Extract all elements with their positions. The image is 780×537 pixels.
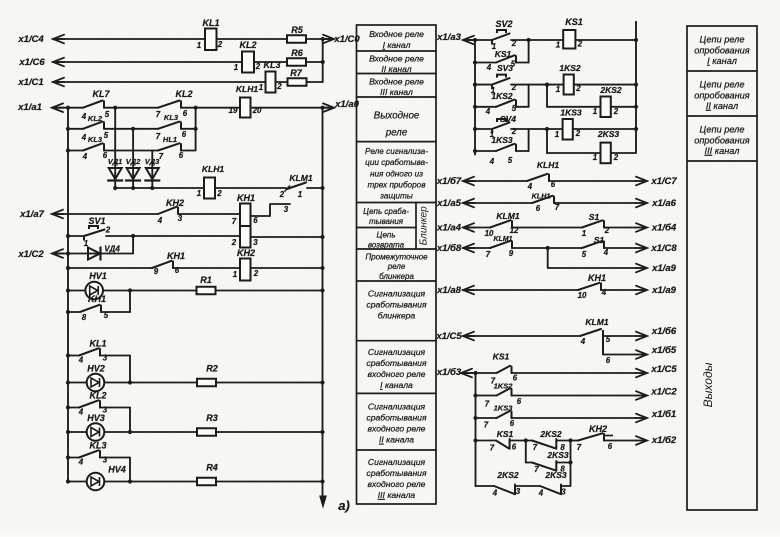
svg-text:Цепи реле: Цепи реле (700, 80, 745, 90)
svg-text:KLM1: KLM1 (585, 317, 608, 327)
svg-text:3: 3 (561, 488, 566, 497)
svg-text:Сигнализация: Сигнализация (368, 288, 426, 298)
svg-text:KS1: KS1 (497, 429, 514, 439)
wire 1KS2 to bus (547, 84, 564, 86)
wire x1/c5 row (463, 335, 580, 337)
svg-text:x1/б7: x1/б7 (436, 176, 462, 187)
svg-text:5: 5 (508, 156, 513, 165)
lamp HV1 (85, 282, 103, 300)
contact KL7 (83, 101, 103, 108)
svg-text:III канала: III канала (378, 490, 416, 500)
svg-text:3: 3 (284, 205, 289, 214)
svg-text:x1/C8: x1/C8 (650, 243, 677, 254)
contact 1KS2 4-5 (473, 105, 477, 109)
wire KL1 to lamp node (129, 356, 131, 383)
svg-text:Цепь: Цепь (376, 230, 395, 239)
wire SV2 to KS1 coil (511, 39, 563, 41)
svg-text:2: 2 (276, 82, 282, 91)
svg-text:блинкера: блинкера (379, 272, 414, 281)
svg-text:реле: реле (385, 128, 408, 139)
wire x1/b3 row (461, 372, 497, 374)
wire row3 of contact network (66, 148, 70, 152)
svg-text:5: 5 (606, 335, 611, 344)
svg-text:R2: R2 (206, 364, 218, 374)
svg-text:x1/б8: x1/б8 (436, 243, 462, 254)
svg-text:6: 6 (510, 419, 515, 428)
wire R4 to bus (216, 481, 323, 483)
node x1/a0 terminal (323, 107, 334, 109)
svg-text:II канал: II канал (381, 64, 411, 74)
svg-text:3: 3 (103, 456, 108, 465)
svg-text:x1/a6: x1/a6 (651, 198, 676, 209)
contact KLM1 7-9 (490, 241, 511, 248)
svg-text:KLM1: KLM1 (289, 173, 312, 183)
relay coil KLH1 1-2 (204, 178, 215, 199)
contact KH2 7-6 (571, 440, 579, 442)
svg-text:x1/C6: x1/C6 (18, 57, 45, 68)
contact KL1 row3 right (158, 143, 180, 150)
svg-text:KL2: KL2 (175, 89, 192, 99)
svg-text:5: 5 (104, 311, 109, 320)
diode VD3 (146, 168, 159, 179)
contact KL3 row3 left (83, 143, 103, 150)
resistor R7 (288, 78, 307, 86)
svg-text:4: 4 (485, 107, 491, 116)
wire VD1 branch (114, 108, 116, 168)
function table middle column (357, 25, 437, 504)
contact KLM1 changeover (287, 183, 306, 190)
svg-text:KL2: KL2 (239, 40, 256, 50)
contact KL2 row1 right (158, 101, 180, 108)
wire R2 to bus (216, 382, 323, 384)
contact KLM1 4-5 (580, 329, 601, 336)
wire KS1 coil to right bus (575, 39, 636, 41)
svg-text:1KS2: 1KS2 (559, 63, 581, 73)
pushbutton SV1 (84, 230, 105, 237)
svg-text:Промежуточное: Промежуточное (365, 252, 428, 261)
svg-text:7: 7 (232, 217, 237, 226)
svg-text:KL2: KL2 (88, 114, 103, 123)
wire link SV2 KS1 rows (528, 40, 530, 63)
svg-text:2: 2 (604, 226, 610, 235)
svg-text:x1/C5: x1/C5 (435, 331, 462, 342)
svg-text:I канал: I канал (383, 40, 411, 50)
svg-text:KLH1: KLH1 (537, 160, 559, 170)
svg-text:Сигнализация: Сигнализация (368, 347, 426, 357)
contact 2KS3 break parallel (526, 441, 532, 463)
svg-text:тывания: тывания (369, 217, 404, 226)
node x1/b6 terminal (636, 332, 647, 341)
node x1/a9b terminal (636, 286, 647, 295)
ground arrow bottom (320, 496, 326, 507)
lamp HV4 (66, 479, 70, 483)
node x1/c2b terminal (636, 391, 647, 400)
relay coil KH1 two sections (240, 204, 251, 227)
svg-text:сработывания: сработывания (366, 299, 427, 309)
svg-text:2: 2 (216, 189, 222, 198)
svg-text:1: 1 (233, 270, 237, 279)
svg-text:Входное реле: Входное реле (369, 29, 424, 39)
svg-text:x1/a8: x1/a8 (436, 285, 461, 296)
svg-text:4: 4 (580, 337, 586, 346)
svg-text:x1/б4: x1/б4 (651, 223, 677, 234)
svg-text:7: 7 (484, 421, 489, 430)
svg-text:II канала: II канала (379, 435, 414, 445)
diode VD2 (127, 168, 140, 179)
svg-text:входного реле: входного реле (368, 369, 426, 379)
svg-text:6: 6 (512, 443, 517, 452)
wire x1/a1 row (52, 107, 83, 109)
svg-text:7: 7 (486, 250, 491, 259)
svg-text:7: 7 (490, 444, 495, 453)
wire KH1 lower to bus (251, 236, 323, 238)
svg-text:2KS2: 2KS2 (539, 429, 562, 439)
wire SV1 row (66, 234, 70, 238)
wire KL2 to lamp node (129, 408, 131, 433)
svg-text:3: 3 (516, 487, 521, 496)
node x1/c5b terminal (636, 369, 647, 378)
svg-text:KH1: KH1 (237, 193, 255, 203)
wire left bus lower (475, 373, 477, 486)
svg-text:2KS2: 2KS2 (599, 85, 622, 95)
wire bus left vertical (67, 108, 69, 482)
wire bottom row to node (561, 463, 571, 487)
svg-text:III канал: III канал (380, 87, 413, 97)
svg-text:KL3: KL3 (89, 441, 106, 451)
contact KH2 4-3 (158, 207, 177, 214)
svg-text:2KS3: 2KS3 (544, 470, 567, 480)
resistor R2 (197, 379, 216, 387)
svg-text:7: 7 (159, 152, 164, 161)
svg-text:x1/б5: x1/б5 (651, 345, 677, 356)
svg-text:x1/C2: x1/C2 (650, 387, 677, 398)
svg-text:Сигнализация: Сигнализация (368, 402, 426, 412)
wire x1/a8 row (463, 289, 578, 291)
svg-text:S1: S1 (594, 235, 605, 245)
svg-text:6: 6 (551, 180, 556, 189)
wire KLH1 to x1/a0 (251, 107, 323, 109)
wire row2 of contact network (66, 127, 70, 131)
svg-text:Блинкер: Блинкер (419, 206, 430, 245)
svg-text:R5: R5 (291, 25, 303, 35)
node x1/a6 terminal (636, 199, 647, 208)
svg-text:Выходы: Выходы (701, 362, 715, 407)
svg-text:KL3: KL3 (88, 135, 103, 144)
svg-text:Входное реле: Входное реле (369, 53, 424, 63)
svg-text:KH2: KH2 (589, 424, 607, 434)
pushbutton SV4 (473, 127, 477, 131)
svg-text:7: 7 (156, 132, 161, 141)
contact S1 1-2 (582, 220, 603, 227)
svg-text:9: 9 (509, 249, 514, 258)
svg-text:Цепь сраба-: Цепь сраба- (363, 207, 409, 216)
svg-text:SV4: SV4 (500, 114, 516, 124)
svg-text:R3: R3 (206, 413, 218, 423)
svg-text:ния одного из: ния одного из (370, 169, 423, 178)
svg-text:Выходное: Выходное (374, 111, 420, 122)
node x1/c8 terminal (636, 244, 647, 253)
wire KLH1 to KLM1 contact (215, 187, 286, 189)
svg-text:1: 1 (556, 41, 560, 50)
wire branch x1/b5 (603, 354, 636, 356)
svg-text:Сигнализация: Сигнализация (368, 457, 426, 467)
contact KS1 7-6 (497, 366, 511, 373)
contact 1KS2 7-6 (473, 393, 477, 397)
contact KH1 10-4 (578, 283, 600, 290)
svg-text:SV1: SV1 (88, 216, 105, 226)
contact KL2 4-3 (66, 405, 70, 409)
svg-text:1: 1 (582, 229, 586, 238)
svg-text:7: 7 (156, 110, 161, 119)
svg-text:4: 4 (82, 152, 88, 161)
wire right link of contact rows (188, 108, 196, 151)
svg-text:3: 3 (103, 354, 108, 363)
wire x1/a3 row (463, 39, 492, 41)
wire x1/a5 row (463, 202, 532, 204)
wire KH2 to bus (251, 267, 323, 269)
resistor R1 (197, 287, 216, 295)
svg-text:1: 1 (259, 83, 263, 92)
relay coil KS1 (563, 30, 575, 49)
svg-text:1: 1 (197, 189, 201, 198)
svg-text:KS1: KS1 (493, 352, 510, 362)
contact KLM1 10-12 (490, 220, 511, 227)
wire x1/a4 row (463, 227, 490, 229)
svg-text:x1/C4: x1/C4 (17, 34, 44, 45)
wire x1/c6 row (53, 61, 242, 63)
svg-text:4: 4 (78, 356, 84, 365)
svg-text:R4: R4 (206, 463, 218, 473)
relay coil 2KS3 (546, 129, 548, 153)
wire right bus top stub (635, 22, 637, 153)
node x1/b4 terminal (636, 223, 647, 232)
svg-text:4: 4 (78, 458, 84, 467)
svg-text:2: 2 (217, 40, 223, 49)
contact KS1 4-5 (473, 60, 477, 64)
svg-text:4: 4 (489, 157, 495, 166)
svg-text:5: 5 (582, 250, 587, 259)
svg-text:1KS3: 1KS3 (491, 135, 513, 145)
svg-text:Входное реле: Входное реле (369, 76, 424, 86)
svg-text:VД4: VД4 (104, 245, 120, 254)
contact 1KS3 7-6 (473, 416, 477, 420)
wire R5 to bus (306, 38, 323, 40)
svg-text:4: 4 (81, 133, 87, 142)
svg-text:III канал: III канал (705, 146, 740, 156)
svg-text:1: 1 (556, 85, 560, 94)
svg-text:KLH1: KLH1 (532, 192, 551, 201)
wire KLM1 to bus (307, 187, 323, 189)
svg-text:x1/C1: x1/C1 (17, 77, 43, 88)
wire x1/b7 row (463, 180, 527, 182)
svg-text:2: 2 (575, 129, 581, 138)
svg-text:5: 5 (105, 110, 110, 119)
svg-text:6: 6 (513, 374, 518, 383)
svg-text:1: 1 (555, 130, 559, 139)
svg-text:x1/a7: x1/a7 (19, 209, 44, 220)
svg-text:R1: R1 (200, 275, 212, 285)
svg-text:KH1: KH1 (88, 294, 106, 304)
svg-text:6: 6 (175, 266, 180, 275)
svg-text:входного реле: входного реле (368, 424, 426, 434)
svg-text:опробования: опробования (694, 90, 750, 100)
svg-text:6: 6 (517, 397, 522, 406)
svg-text:12: 12 (510, 226, 519, 235)
svg-text:2: 2 (255, 62, 261, 71)
svg-text:KLH1: KLH1 (236, 84, 258, 94)
contact KLH1 4-6 (527, 174, 548, 181)
svg-text:x1/C2: x1/C2 (17, 249, 44, 260)
wire 2KS3 to bus (611, 152, 636, 154)
svg-text:2: 2 (253, 269, 259, 278)
svg-text:KS1: KS1 (565, 17, 583, 27)
svg-text:7: 7 (577, 443, 582, 452)
svg-text:4: 4 (486, 63, 492, 72)
contact KL2 row2 left (83, 122, 103, 129)
node x1/c7 terminal (636, 177, 647, 186)
svg-text:R6: R6 (291, 48, 303, 58)
wire KL3 to lamp node (129, 458, 131, 482)
relay coil 1KS3 (563, 119, 573, 140)
pushbutton SV2 (492, 34, 510, 41)
contact KL3 4-3 (66, 455, 70, 459)
contact KH1 9-6 (152, 261, 172, 268)
contact 2KS3 4-3 bottom (540, 486, 560, 494)
svg-text:6: 6 (183, 109, 188, 118)
svg-text:KL1: KL1 (89, 339, 106, 349)
wire x1/c4 row (53, 38, 205, 40)
svg-text:x1/a9: x1/a9 (651, 263, 676, 274)
svg-text:1KS3: 1KS3 (560, 108, 582, 118)
svg-text:II канал: II канал (706, 101, 738, 111)
svg-text:1: 1 (593, 153, 597, 162)
contact KLH1 6-7 (532, 196, 553, 203)
wire bus of R5 R6 R7 (322, 39, 324, 82)
node x1/a9 terminal (636, 264, 647, 273)
svg-text:SV3: SV3 (497, 63, 513, 73)
svg-text:x1/a9: x1/a9 (651, 285, 676, 296)
svg-text:сработывания: сработывания (366, 468, 427, 478)
wire R1 to bus (216, 290, 323, 292)
svg-text:4: 4 (601, 288, 607, 297)
svg-text:1: 1 (234, 63, 238, 72)
svg-text:7: 7 (533, 443, 538, 452)
svg-text:сработывания: сработывания (366, 413, 427, 423)
svg-text:HV4: HV4 (108, 465, 126, 475)
wire KH1 upper to stub 3 (251, 204, 291, 216)
wire branch to x1/a9 (546, 246, 550, 250)
svg-text:HV2: HV2 (87, 364, 105, 374)
svg-text:2KS3: 2KS3 (546, 450, 569, 460)
svg-text:KH1: KH1 (588, 273, 606, 283)
wire VD3 branch (151, 151, 153, 169)
svg-text:S1: S1 (589, 212, 600, 222)
svg-text:реле: реле (387, 262, 406, 271)
svg-text:x1/a1: x1/a1 (17, 102, 42, 113)
node x1/b2 terminal (636, 436, 647, 445)
svg-text:KLH1: KLH1 (202, 164, 224, 174)
svg-text:6: 6 (608, 442, 613, 451)
relay coil KL1 (205, 29, 217, 51)
wire link SV4 1KS3 rows (528, 129, 530, 151)
wire KH1 8-5 branch (66, 310, 70, 314)
svg-text:VД1: VД1 (108, 157, 123, 166)
wire R3 to bus (216, 431, 323, 433)
lamp HV3 (66, 430, 70, 434)
svg-text:6: 6 (179, 151, 184, 160)
diode VD4 (88, 248, 100, 260)
svg-text:KH1: KH1 (167, 251, 185, 261)
svg-text:KL2: KL2 (89, 391, 106, 401)
svg-text:2: 2 (613, 107, 619, 116)
svg-text:6: 6 (536, 204, 541, 213)
svg-text:входного реле: входного реле (368, 479, 426, 489)
wire R6 to bus (306, 61, 323, 63)
svg-text:KL3: KL3 (263, 60, 280, 70)
svg-text:x1/a5: x1/a5 (436, 198, 461, 209)
relay coil 1KS2 (564, 75, 574, 95)
relay coil KL3 (266, 72, 276, 93)
contact KS1 break (473, 438, 477, 442)
svg-text:4: 4 (157, 216, 163, 225)
svg-text:8: 8 (82, 313, 87, 322)
contact KL1 4-3 (66, 353, 70, 357)
svg-text:сработывания: сработывания (366, 358, 427, 368)
contact 2KS2 break (526, 440, 532, 442)
wire KH1 contact row (66, 266, 70, 270)
wire VD4 to SV1 node (102, 236, 134, 254)
lamp HV2 (66, 380, 70, 384)
svg-text:4: 4 (78, 408, 84, 417)
svg-text:HV3: HV3 (87, 413, 105, 423)
svg-text:KH2: KH2 (237, 248, 255, 258)
svg-text:4: 4 (603, 248, 609, 257)
wire HV1 row (66, 288, 70, 292)
svg-text:возврата: возврата (368, 240, 405, 249)
svg-text:4: 4 (538, 489, 544, 498)
svg-text:I канала: I канала (380, 380, 413, 390)
svg-text:KL1: KL1 (202, 18, 219, 28)
svg-text:опробования: опробования (694, 135, 750, 145)
svg-text:4: 4 (527, 182, 533, 191)
svg-text:KH2: KH2 (166, 198, 184, 208)
svg-text:HL1: HL1 (163, 135, 177, 144)
svg-text:блинкера: блинкера (378, 310, 416, 320)
node x1/b5 terminal (636, 350, 647, 359)
wire VD2 branch (132, 129, 134, 168)
wire x1/a7 row (52, 213, 158, 215)
contact 1KS3 4-5 (473, 149, 477, 153)
svg-text:6: 6 (182, 130, 187, 139)
svg-text:KL7: KL7 (92, 89, 110, 99)
svg-text:7: 7 (555, 203, 560, 212)
wire link SV3 1KS2 rows (528, 85, 530, 107)
node x1/c0 terminal (321, 37, 325, 41)
wire x1/c1 row (53, 81, 266, 83)
resistor R5 (287, 35, 306, 43)
contact 2KS2 4-3 bottom (476, 485, 495, 487)
svg-text:7: 7 (534, 465, 539, 474)
svg-text:x1/б1: x1/б1 (651, 409, 676, 420)
svg-text:x1/б6: x1/б6 (651, 326, 677, 337)
svg-text:VД3: VД3 (145, 157, 160, 166)
svg-text:x1/a3: x1/a3 (436, 32, 461, 43)
svg-text:6: 6 (253, 216, 258, 225)
relay coil KL2 (242, 52, 254, 73)
svg-text:Цепи реле: Цепи реле (700, 35, 745, 45)
svg-text:HV1: HV1 (89, 271, 107, 281)
svg-text:опробования: опробования (694, 45, 750, 55)
